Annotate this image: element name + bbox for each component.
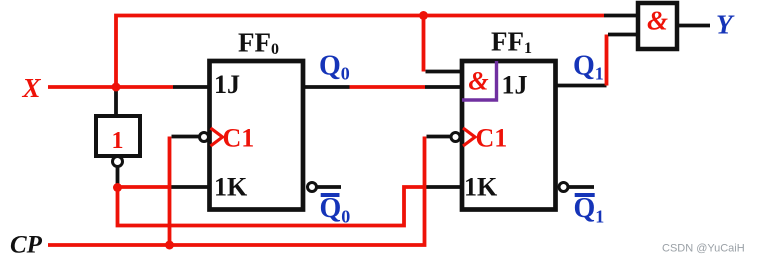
inverter box: [96, 116, 140, 156]
C1 bubble FF1: [451, 133, 460, 142]
flip-flop FF1 box: [462, 61, 556, 210]
node inverter output junction: [113, 183, 122, 192]
svg-text:&: &: [468, 67, 488, 96]
svg-text:X: X: [22, 73, 42, 103]
wire Q0-bar stub (black): [317, 185, 342, 189]
wire CP riser to FF0 C1 (red): [168, 137, 172, 246]
svg-text:&: &: [647, 6, 668, 36]
wire 1J stub FF0 (black): [173, 85, 210, 89]
Q0-bar output bubble FF0: [308, 183, 317, 192]
wire Q1 riser to AND gate (red): [605, 35, 609, 86]
svg-text:1K: 1K: [214, 173, 248, 202]
dynamic-input triangle FF0: [211, 128, 223, 146]
inverter output bubble: [113, 157, 123, 167]
wire C1 stub FF1 (black): [427, 135, 452, 139]
wire inverter input (black): [114, 87, 118, 116]
AND gate U1 box: [638, 3, 677, 49]
wire AND input B stub FF1 (black): [425, 85, 462, 89]
dynamic-input triangle FF1: [463, 128, 475, 146]
svg-text:1J: 1J: [502, 71, 528, 100]
wire 1K stub FF0 (black): [171, 185, 210, 189]
wire AND gate input 2 stub (black): [608, 33, 638, 37]
wire Q1 stub (black): [556, 84, 607, 88]
wire 1K stub FF1 (black): [426, 185, 462, 189]
svg-text:1J: 1J: [214, 70, 240, 99]
wire Y output (black): [677, 24, 710, 28]
wire CP line (red) with riser to FF1 C1: [48, 137, 425, 246]
wire top-line to FF1 AND input A (red drop): [422, 16, 426, 72]
wire inverter-output to FF1 1K (red, down/right/up): [118, 187, 425, 226]
svg-text:C1: C1: [223, 124, 255, 153]
label Q0-bar overbar: [321, 193, 340, 197]
wire X-to-top feedback (red vertical + top horizontal to AND gate): [116, 16, 604, 88]
node X junction: [112, 83, 121, 92]
svg-text:CSDN @YuCaiH: CSDN @YuCaiH: [662, 243, 745, 255]
svg-text:1: 1: [112, 128, 124, 154]
wire Q0 to FF1 AND input (red): [350, 85, 426, 89]
svg-text:Y: Y: [716, 10, 735, 40]
wire Q1-bar stub (black): [568, 185, 594, 189]
Q1-bar output bubble FF1: [559, 183, 568, 192]
svg-text:CP: CP: [10, 232, 43, 259]
node CP junction: [165, 241, 174, 250]
flip-flop FF0 box: [210, 61, 304, 210]
C1 bubble FF0: [200, 133, 209, 142]
wire AND input A stub FF1 (black): [426, 70, 463, 74]
embedded AND outline (purple) in FF1: [462, 61, 497, 100]
wire AND gate input 1 stub (black): [604, 14, 638, 18]
wire Q0 stub (black): [303, 85, 350, 89]
wire inverter output (black): [116, 167, 120, 186]
svg-text:1K: 1K: [464, 173, 498, 202]
node top junction at x=424: [419, 11, 428, 20]
svg-text:C1: C1: [476, 124, 508, 153]
wire C1 stub FF0 (black): [172, 135, 200, 139]
wire X input (red): [48, 85, 173, 89]
wire inverter-output to FF0 1K (red): [118, 185, 171, 189]
label Q1-bar overbar: [575, 193, 595, 197]
